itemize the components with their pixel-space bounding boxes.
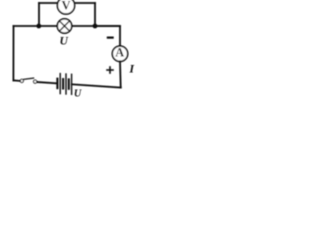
label - (ammeter minus terminal) xyxy=(108,36,113,38)
svg-text:U: U xyxy=(60,35,69,48)
ammeter A xyxy=(112,45,127,61)
wire right top corner to ammeter xyxy=(95,26,120,46)
svg-text:U: U xyxy=(74,89,82,100)
wire top horizontal (voltmeter branch) xyxy=(39,2,95,4)
wire bottom right (corner to battery) xyxy=(72,84,121,87)
wire middle horizontal (lamp branch) xyxy=(14,25,121,27)
label + (ammeter plus terminal) xyxy=(107,67,113,73)
wire right riser of voltmeter branch xyxy=(94,3,96,26)
battery short plate 3 xyxy=(68,79,70,88)
battery (3 cells) xyxy=(57,74,71,95)
battery short plate 2 xyxy=(62,79,64,88)
svg-text:V: V xyxy=(61,0,70,13)
battery long plate 2 xyxy=(65,74,67,94)
wire battery left stub to switch xyxy=(37,82,57,83)
battery long plate 1 xyxy=(59,74,61,94)
svg-text:A: A xyxy=(115,45,124,59)
wire switch left stub to bottom left corner xyxy=(13,79,20,82)
lamp X xyxy=(57,19,71,33)
wire left riser of voltmeter branch xyxy=(38,3,40,26)
switch S (open knife switch) xyxy=(20,78,37,83)
battery short plate 1 xyxy=(56,79,58,88)
node left junction xyxy=(36,24,41,29)
wire left vertical xyxy=(12,26,14,80)
battery long plate 3 xyxy=(71,74,73,94)
wire ammeter down to bottom right corner xyxy=(119,61,122,87)
node right junction xyxy=(93,24,98,29)
voltmeter V xyxy=(57,0,74,14)
